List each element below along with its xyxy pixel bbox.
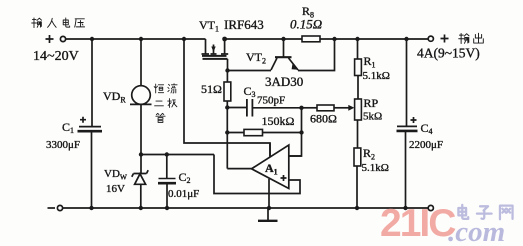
node VT2 base rail junction [281, 37, 285, 41]
wire rail mosfet to R8 [225, 38, 302, 40]
wire RP to R2 [357, 120, 359, 148]
svg-text:R2: R2 [363, 146, 375, 162]
node C1 ground junction [89, 206, 93, 210]
svg-text:150kΩ: 150kΩ [262, 114, 295, 128]
node VDW ground junction [139, 206, 143, 210]
ground [258, 208, 278, 221]
wire gate node to 51 ohm [226, 71, 228, 83]
svg-text:VDR: VDR [103, 89, 126, 105]
svg-text:3300μF: 3300μF [46, 139, 80, 151]
wire VDR top lead [140, 39, 142, 86]
svg-text:2200μF: 2200μF [409, 139, 443, 151]
svg-text:4A(9~15V): 4A(9~15V) [417, 46, 480, 61]
wire op-amp V- pin to ground rail [268, 179, 270, 208]
node feedback junction [299, 106, 303, 110]
label RP value [363, 96, 382, 123]
svg-text:51Ω: 51Ω [201, 82, 222, 96]
label 4A(9~15V) [417, 46, 480, 61]
label C3 value 750pF [244, 84, 286, 107]
capacitor C1 [78, 117, 103, 132]
node VT2 collector rail junction [332, 37, 336, 41]
svg-text:14~20V: 14~20V [33, 49, 79, 64]
node input rail junction C1 [90, 37, 94, 41]
svg-text:750pF: 750pF [257, 95, 285, 107]
potentiometer RP [355, 99, 362, 120]
svg-text:RP: RP [364, 96, 379, 110]
zener diode VDW [132, 155, 148, 209]
svg-text:680Ω: 680Ω [310, 112, 337, 126]
label VT1 IRF643 [199, 17, 264, 34]
node C4 rail junction [404, 37, 408, 41]
svg-text:5.1kΩ: 5.1kΩ [362, 162, 389, 174]
svg-text:C3: C3 [244, 84, 256, 99]
label R2 value [362, 146, 389, 174]
resistor 150k with wires [227, 129, 301, 135]
label constant current diode 恒流二极管 [154, 84, 177, 123]
wire drive node vertical [226, 101, 228, 169]
label 14~20V [33, 49, 79, 64]
label VT2 3AD30 [246, 50, 303, 89]
label VDR [103, 89, 126, 105]
transistor VT1 mosfet IRF643 [202, 39, 229, 71]
svg-text:C4: C4 [421, 121, 433, 136]
wire R2 to ground rail [356, 166, 358, 208]
op-amp A1 [252, 145, 289, 189]
svg-text:16V: 16V [106, 183, 125, 195]
label R1 value [363, 54, 390, 82]
resistor 51 ohm [224, 82, 231, 101]
svg-text:C2: C2 [179, 170, 191, 185]
svg-text:.com: .com [448, 216, 505, 246]
output + terminal [428, 35, 448, 43]
watermark 21IC.com logo [380, 202, 513, 246]
wire op-amp supply from rail [184, 39, 270, 157]
input - terminal [48, 205, 63, 210]
capacitor C4 with leads [397, 39, 418, 208]
svg-text:3AD30: 3AD30 [265, 74, 303, 89]
svg-text:0.01μF: 0.01μF [168, 188, 199, 200]
node R2 ground junction [355, 206, 359, 210]
label C4 value 2200uF [409, 121, 443, 151]
node 150k right junction [299, 130, 303, 134]
svg-text:C1: C1 [62, 120, 74, 135]
capacitor C2 [158, 155, 176, 209]
resistor R1 with leads [355, 39, 362, 99]
resistor 680 with wires [304, 105, 355, 111]
node mosfet drain rail junction [222, 37, 227, 42]
svg-text:0.15Ω: 0.15Ω [290, 17, 322, 32]
wire VT2 emitter to gate node [228, 70, 272, 72]
wire non-inverting input loop [214, 155, 300, 194]
svg-text:5kΩ: 5kΩ [363, 111, 382, 123]
resistor R8 [302, 36, 320, 42]
svg-text:VDW: VDW [104, 168, 128, 182]
node 150k junction [225, 130, 229, 134]
node R1 rail junction [355, 37, 359, 41]
wire C1 bottom lead [91, 131, 93, 208]
wire op-amp V+ pin [269, 143, 271, 157]
diode VDR constant current [130, 86, 152, 105]
node ground junction [267, 206, 271, 210]
label 150k [262, 114, 295, 128]
label C1 value 3300uF [46, 120, 80, 151]
wire op-amp output [227, 168, 251, 170]
wire reference node horizontal [141, 154, 214, 156]
wire rail R8 to output [320, 38, 428, 40]
wire top rail left segment [66, 38, 206, 40]
svg-text:IRF643: IRF643 [224, 17, 264, 32]
wire VT2 collector to rail [298, 39, 335, 71]
node input rail junction supply [182, 37, 186, 41]
svg-text:R1: R1 [364, 54, 376, 70]
label VDW 16V [104, 168, 128, 195]
node A zener junction [139, 152, 143, 156]
node gate junction [225, 68, 229, 72]
svg-text:VT2: VT2 [246, 50, 266, 66]
label C2 value 0.01uF [168, 170, 199, 200]
svg-text:A1: A1 [265, 161, 278, 177]
wire VDR to node A [140, 104, 142, 154]
resistor R2 [354, 148, 361, 166]
svg-text:21IC: 21IC [380, 202, 456, 245]
label 680 ohm [310, 112, 337, 126]
label R8 value 0.15 ohm [290, 4, 322, 32]
node C3 junction [225, 105, 229, 109]
label input voltage 输入电压 [32, 18, 85, 28]
wire inverting input vertical [289, 108, 302, 156]
wire C1 top lead [91, 39, 93, 126]
capacitor C3 [227, 99, 301, 117]
label output 输出 [459, 33, 484, 43]
label 51 ohm [201, 82, 222, 96]
wire bottom ground rail [63, 207, 429, 209]
output - terminal [428, 205, 433, 210]
node C4 ground junction [403, 206, 407, 210]
node C2 top junction [165, 152, 169, 156]
svg-text:5.1kΩ: 5.1kΩ [363, 70, 390, 82]
node C2 ground junction [165, 206, 169, 210]
node input rail junction VDR [139, 37, 143, 41]
transistor VT2 3AD30 [271, 39, 299, 70]
svg-text:VT1: VT1 [199, 18, 219, 34]
input + terminal [46, 35, 66, 43]
wire inverting input [289, 155, 302, 157]
